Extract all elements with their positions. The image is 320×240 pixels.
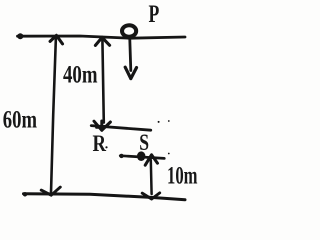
svg-text:60m: 60m	[3, 105, 37, 134]
svg-text:40m: 40m	[63, 62, 98, 89]
svg-text:10m: 10m	[167, 163, 198, 190]
svg-text:R: R	[93, 131, 107, 157]
svg-text:S: S	[139, 130, 149, 156]
svg-text:P: P	[149, 1, 160, 28]
